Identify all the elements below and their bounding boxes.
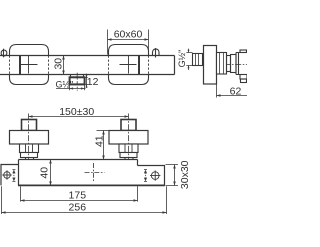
right neck	[125, 158, 133, 160]
dim 62 extension	[216, 84, 218, 97]
right handle hidden edges dashed	[109, 56, 149, 75]
svg-text:G½": G½"	[56, 80, 74, 90]
right dome knob	[153, 49, 160, 56]
left neck	[26, 158, 34, 160]
dim 41 extension	[97, 130, 110, 132]
left dome knob	[1, 50, 7, 56]
right inlet hex nut	[119, 144, 138, 153]
svg-text:256: 256	[69, 202, 87, 214]
left inlet hex nut	[20, 144, 39, 153]
left handle outline solid	[10, 45, 49, 85]
dim 30x30 line	[174, 165, 176, 186]
right wall plate	[138, 166, 165, 186]
outlet flange (thick)	[70, 77, 85, 84]
dim G1/2 shelf line under outlet	[56, 88, 86, 90]
collar ring	[231, 55, 237, 73]
side G1/2 dim line arrows outside	[188, 49, 190, 70]
dim 62 line	[217, 95, 248, 97]
hex nut side	[217, 53, 227, 75]
valve lever below	[241, 79, 247, 83]
right dome stem	[155, 48, 157, 57]
svg-text:12: 12	[87, 76, 99, 88]
valve face edge right (thick)	[138, 56, 140, 75]
dim 12 extension ticks	[85, 78, 88, 85]
right hex facets	[125, 144, 132, 153]
dim 30 line with arrows	[63, 56, 65, 75]
right inlet square nut	[121, 120, 136, 131]
right plate screw target	[150, 170, 160, 180]
nipple threads	[196, 54, 199, 66]
outlet centerline	[76, 73, 78, 91]
valve face edge left (thick)	[19, 56, 21, 75]
left hex facets	[26, 144, 33, 153]
left handle hidden edges dashed	[10, 56, 49, 75]
front body bottom edge	[18, 184, 165, 186]
dim 150+-30 line	[29, 116, 129, 118]
dim 30x30 extensions	[166, 165, 179, 186]
dim 256 line	[2, 212, 167, 214]
valve body side	[236, 53, 247, 75]
left plate arrow symbol	[13, 173, 15, 178]
dim 41 line	[103, 131, 105, 160]
svg-text:150±30: 150±30	[59, 106, 94, 118]
svg-text:30x30: 30x30	[179, 160, 191, 189]
left locknut	[21, 153, 38, 158]
left dome stem	[3, 49, 5, 58]
svg-text:30: 30	[53, 58, 65, 70]
right plate arrow symbol	[145, 173, 147, 178]
right handle outline solid	[109, 45, 149, 85]
dim 40 line	[50, 160, 52, 186]
threaded nipple	[193, 54, 203, 66]
right handle center mark	[120, 56, 137, 74]
svg-text:G½": G½"	[177, 50, 187, 68]
left handle center mark	[21, 56, 38, 74]
dim G1/2 extension ticks	[70, 85, 85, 90]
side G1/2 extension ticks	[186, 53, 192, 66]
dim 60x60 line with arrows	[108, 39, 149, 41]
dim 175 line	[21, 200, 138, 202]
front body outline	[19, 160, 138, 186]
outlet neck	[71, 75, 84, 77]
dim 175 extensions	[21, 186, 138, 201]
svg-text:60x60: 60x60	[114, 29, 143, 41]
svg-text:41: 41	[94, 135, 106, 147]
right inlet centerline	[128, 114, 130, 160]
right locknut	[120, 153, 137, 158]
valve top tab	[240, 50, 247, 53]
side centerline	[214, 64, 248, 66]
hex nut facets	[220, 53, 224, 74]
dim 12 line	[86, 74, 88, 88]
left inlet flange	[10, 131, 49, 145]
spacer ring	[227, 56, 231, 72]
left inlet centerline	[28, 114, 30, 160]
wire body tube outline	[0, 56, 175, 75]
dim 256 extensions	[2, 186, 167, 214]
right inlet flange	[109, 131, 148, 145]
valve bottom tab	[240, 75, 247, 80]
left plate screw target	[2, 170, 11, 179]
dim 60x60 extension lines	[108, 30, 149, 55]
svg-text:40: 40	[39, 167, 51, 179]
svg-text:175: 175	[69, 189, 87, 201]
left wall plate	[1, 165, 19, 186]
front body center mark	[85, 163, 105, 182]
svg-text:62: 62	[230, 85, 242, 97]
escutcheon plate side	[204, 46, 217, 85]
left inlet square nut	[22, 120, 37, 131]
